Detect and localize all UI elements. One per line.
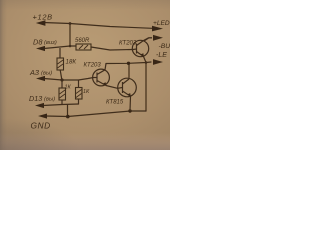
- svg-text:D8: D8: [33, 38, 43, 47]
- wire tee from +12V rail down to D8 node: [69, 24, 71, 46]
- svg-text:+12В: +12В: [33, 13, 53, 22]
- wire right vertical (LED cathode to GND rail): [145, 63, 147, 112]
- wire from R1 to Q1 base: [91, 47, 133, 50]
- svg-text:1К: 1К: [83, 89, 90, 95]
- node: junction dot collector bus: [127, 62, 130, 65]
- node: junction dot top rail tee: [69, 22, 72, 25]
- svg-text:-BU: -BU: [159, 43, 171, 50]
- terminal arrow D8 input: [33, 38, 57, 52]
- node: junction dot -LED: [145, 61, 148, 64]
- svg-text:D13: D13: [29, 94, 42, 103]
- terminal arrow +12V: [33, 13, 53, 26]
- svg-text:КТ815: КТ815: [106, 100, 124, 106]
- svg-text:КТ203: КТ203: [84, 63, 102, 69]
- transistor Q3 KT815: [106, 78, 136, 111]
- wire vertical drop to GND: [67, 105, 69, 117]
- resistor R3 1K (left): [59, 81, 71, 105]
- wire Q3 collector drop: [128, 63, 130, 77]
- terminal arrow -BUZ: [144, 35, 170, 50]
- terminal arrow A3 input: [29, 68, 52, 81]
- svg-text:+LED: +LED: [153, 20, 170, 27]
- svg-text:-LE: -LE: [156, 52, 167, 59]
- wire D13 line to resistor bottoms: [43, 104, 79, 106]
- paper background: [0, 0, 170, 150]
- transistor Q1 KT203 (top right): [119, 38, 152, 63]
- svg-text:A3: A3: [29, 68, 40, 77]
- svg-text:(вы): (вы): [44, 97, 55, 103]
- resistor R4 1K (right): [76, 80, 90, 104]
- node: junction dot D8/R1: [69, 45, 72, 48]
- svg-text:560R: 560R: [75, 38, 90, 44]
- node: junction dot GND left: [66, 115, 70, 119]
- wire +12V top rail: [43, 23, 152, 29]
- svg-text:18К: 18К: [66, 59, 77, 66]
- terminal arrow GND: [31, 114, 51, 131]
- svg-text:КТ203: КТ203: [119, 41, 137, 47]
- svg-text:(виз): (виз): [44, 40, 57, 46]
- terminal arrow -LED: [153, 52, 167, 65]
- node A: junction dot A3 base line: [60, 78, 63, 81]
- wire GND rail: [46, 111, 146, 117]
- svg-text:GND: GND: [31, 121, 51, 131]
- wire A3 line to Q2 base: [44, 78, 94, 81]
- terminal arrow +LED: [152, 20, 170, 31]
- transistor Q2 KT203 (middle): [84, 63, 118, 89]
- resistor R2 18K: [57, 48, 76, 80]
- node: junction dot GND emitter: [128, 109, 131, 112]
- wire collector bus to -LED arrow: [106, 62, 151, 64]
- resistor R1 560R: [75, 38, 91, 50]
- svg-text:(вы): (вы): [41, 71, 52, 77]
- wire D8 input line: [44, 46, 76, 49]
- terminal arrow D13 input: [29, 94, 55, 108]
- svg-text:1К: 1К: [65, 85, 72, 91]
